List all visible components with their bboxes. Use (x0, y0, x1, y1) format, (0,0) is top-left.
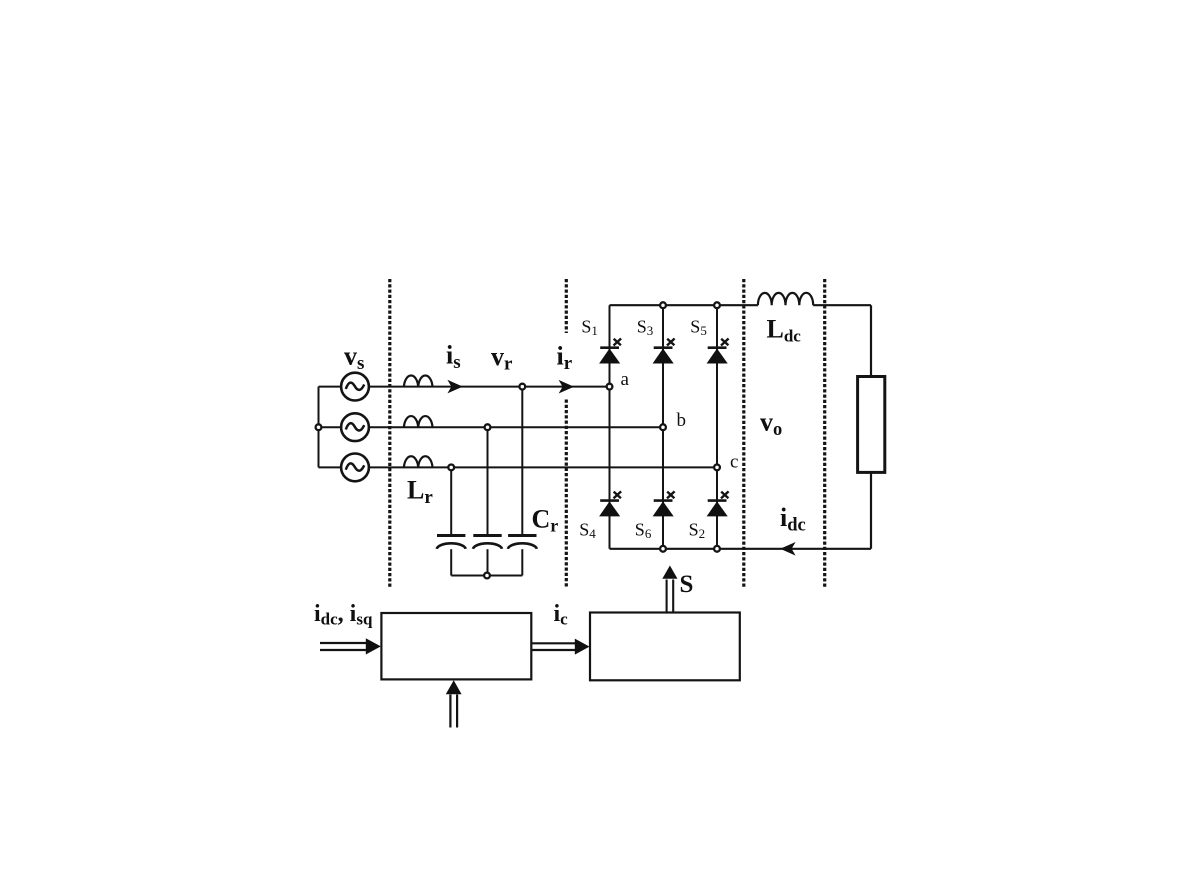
bridge leg 1 (609, 305, 611, 549)
wire phase c (319, 466, 718, 468)
switch S1 (599, 339, 621, 364)
inductor Lr phase b (404, 416, 433, 427)
capacitor Cr2 lower wire (487, 549, 489, 575)
boundary dotted line 3 (742, 279, 745, 589)
control block 1 (381, 613, 531, 679)
boundary dotted line 1 (388, 279, 391, 589)
capacitor Cr2 wire (487, 427, 489, 534)
ac source V1 (341, 373, 369, 401)
capacitor Cr3 lower wire (521, 549, 523, 575)
left bus wire (318, 387, 320, 468)
node cap tap phase c (448, 465, 454, 471)
boundary dotted line 2 upper segment (565, 279, 568, 333)
switch S6 (653, 491, 675, 516)
switch S4 (599, 491, 621, 516)
svg-text:b: b (677, 410, 687, 431)
capacitor Cr1 lower wire (450, 549, 452, 575)
wire phase b (319, 426, 664, 428)
switch S5 (707, 339, 729, 364)
arrow ir (559, 380, 574, 394)
arrow reference input (446, 680, 462, 727)
ac source V2 (341, 413, 369, 441)
load resistor (858, 377, 885, 473)
arrow S output (662, 566, 677, 613)
arrow idc (780, 542, 795, 556)
control block 2 (590, 613, 740, 681)
switch S2 (707, 491, 729, 516)
capacitor Cr1 (437, 536, 466, 549)
left bus node (316, 424, 322, 430)
dc top rail (610, 304, 872, 306)
switch S3 (653, 339, 675, 364)
arrow is (447, 380, 462, 394)
node a (607, 384, 613, 390)
svg-text:a: a (621, 369, 630, 390)
capacitor Cr3 wire (521, 387, 523, 535)
wire phase a (319, 386, 610, 388)
capacitor Cr1 wire (450, 467, 452, 534)
arrow input idc isq (320, 638, 381, 654)
bridge leg 2 (662, 305, 664, 549)
top rail node leg2 (660, 302, 666, 308)
ac source V3 (341, 454, 369, 482)
wire load bottom (870, 472, 872, 548)
capacitor bus node (484, 573, 490, 579)
node cap tap phase a (519, 384, 525, 390)
bottom rail node leg3 (714, 546, 720, 552)
node c (714, 465, 720, 471)
top rail node leg3 (714, 302, 720, 308)
bottom rail node leg2 (660, 546, 666, 552)
node b (660, 424, 666, 430)
inductor Lr phase a (404, 375, 433, 386)
dc bottom rail (610, 548, 872, 550)
capacitor Cr2 (473, 536, 502, 549)
inductor Ldc (758, 293, 813, 305)
wire load top (870, 305, 872, 376)
capacitor Cr3 (508, 536, 537, 549)
svg-text:S: S (680, 571, 694, 598)
bridge leg 3 (716, 305, 718, 549)
inductor Lr phase c (404, 456, 433, 467)
node cap tap phase b (485, 424, 491, 430)
arrow ic (531, 639, 589, 655)
boundary dotted line 4 (823, 279, 826, 589)
svg-text:c: c (730, 452, 738, 473)
boundary dotted line 2 lower segment (565, 400, 568, 589)
capacitor bus wire (451, 575, 522, 577)
